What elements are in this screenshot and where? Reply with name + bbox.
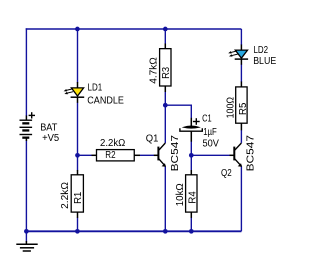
value label 2.2kΩ (R2)	[100, 138, 126, 149]
name label Q2	[221, 168, 232, 179]
svg-text:4.7kΩ: 4.7kΩ	[148, 57, 159, 84]
LED label BLUE	[253, 56, 276, 67]
node LD1 / R2 / R1	[75, 153, 80, 158]
battery label +V5	[42, 133, 60, 144]
value label BC547 (Q2)	[245, 134, 256, 171]
svg-text:CANDLE: CANDLE	[87, 96, 124, 107]
wire C1 bottom / R4 vertical	[190, 141, 192, 231]
svg-text:R4: R4	[188, 191, 199, 204]
svg-text:R1: R1	[73, 191, 84, 204]
svg-text:10kΩ: 10kΩ	[175, 183, 186, 206]
wire left vertical above battery	[25, 28, 27, 116]
name label C1	[202, 114, 212, 125]
node bottom rail / Q1 emitter	[163, 229, 168, 234]
svg-text:LD1: LD1	[88, 83, 103, 94]
value label 1µF	[203, 127, 217, 138]
svg-text:2.2kΩ: 2.2kΩ	[100, 138, 126, 149]
transistor Q1	[154, 143, 166, 167]
LED LD2 (blue)	[228, 45, 248, 65]
svg-text:BC547: BC547	[245, 134, 256, 171]
ground	[16, 231, 37, 251]
svg-text:C1: C1	[202, 114, 212, 125]
transistor Q2	[230, 143, 243, 167]
wire Q2 base from node	[191, 154, 230, 156]
name label Q1	[146, 133, 159, 144]
LED label CANDLE	[87, 96, 124, 107]
battery BAT +V5	[20, 112, 36, 141]
node R3 / C1	[163, 103, 168, 108]
capacitor C1	[180, 118, 202, 142]
resistor R4	[186, 170, 197, 218]
name label R3	[161, 67, 172, 79]
value label 10kΩ	[175, 183, 186, 206]
svg-text:Q1: Q1	[146, 133, 159, 144]
value label 100Ω	[225, 97, 236, 119]
svg-text:R2: R2	[105, 150, 116, 161]
value label 50V	[203, 139, 220, 150]
name label R4	[188, 191, 199, 204]
node C1 / R4 / Q2 base	[189, 153, 194, 158]
svg-text:BAT: BAT	[40, 123, 57, 134]
svg-text:Q2: Q2	[221, 168, 232, 179]
wire R3 bottom to C1 top	[165, 105, 191, 118]
battery label BAT	[40, 123, 57, 134]
LED label LD1	[88, 83, 103, 94]
svg-text:2.2kΩ: 2.2kΩ	[60, 181, 71, 208]
svg-text:LD2: LD2	[254, 45, 269, 56]
value label 4.7kΩ	[148, 57, 159, 84]
wire bottom rail (ground net)	[26, 230, 242, 232]
svg-text:1µF: 1µF	[203, 127, 217, 138]
svg-text:+V5: +V5	[42, 133, 60, 144]
LED label LD2	[254, 45, 269, 56]
node top rail / R3 branch	[163, 27, 168, 32]
resistor R3	[160, 44, 171, 93]
value label BC547 (Q1)	[170, 134, 181, 171]
LED LD1 (yellow)	[64, 82, 85, 103]
wire branch LD1/R1 vertical	[77, 29, 79, 231]
name label R1	[73, 191, 84, 204]
name label R2	[105, 150, 116, 161]
svg-text:BLUE: BLUE	[253, 56, 276, 67]
wire top rail (V+ net)	[26, 28, 242, 30]
value label 2.2kΩ (R1)	[60, 181, 71, 208]
svg-text:50V: 50V	[203, 139, 220, 150]
node bottom rail / R1	[75, 229, 80, 234]
node bottom rail / R4	[189, 229, 194, 234]
wire branch R3/Q1 vertical	[164, 29, 166, 231]
svg-text:R3: R3	[161, 67, 172, 79]
node bottom rail / ground	[24, 229, 29, 234]
wire R2 base row	[78, 154, 155, 156]
wire left vertical below battery	[25, 141, 27, 232]
svg-text:100Ω: 100Ω	[225, 97, 236, 119]
wire branch LD2/R5/Q2 right vertical	[240, 29, 242, 231]
svg-text:BC547: BC547	[170, 134, 181, 171]
resistor R1	[71, 170, 83, 218]
node top rail / LD1 branch	[75, 27, 80, 32]
resistor R5	[236, 82, 247, 131]
name label R5	[238, 102, 249, 115]
svg-text:R5: R5	[238, 102, 249, 115]
resistor R2	[92, 150, 141, 161]
